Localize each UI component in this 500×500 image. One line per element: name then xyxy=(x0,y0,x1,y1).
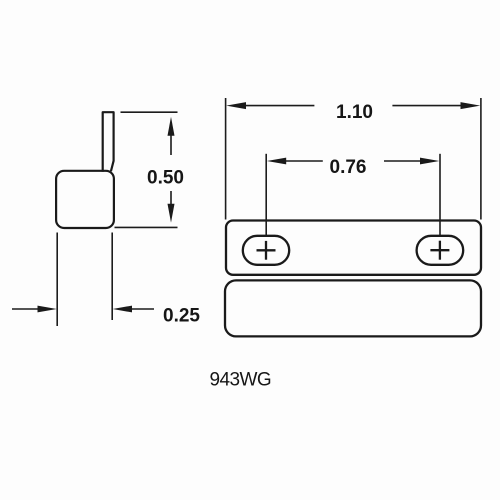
svg-text:943WG: 943WG xyxy=(210,370,272,391)
svg-text:0.25: 0.25 xyxy=(163,306,200,327)
svg-text:0.76: 0.76 xyxy=(330,157,367,178)
svg-text:0.50: 0.50 xyxy=(147,168,184,189)
svg-text:1.10: 1.10 xyxy=(336,102,373,123)
